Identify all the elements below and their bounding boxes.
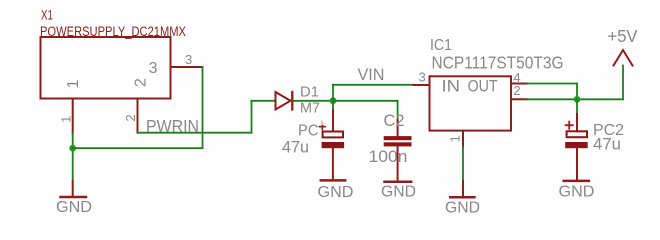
svg-text:X1: X1 (41, 7, 53, 22)
C2 bottom pin to ground (397, 146, 399, 180)
X1 pin 1 (72, 99, 74, 134)
wire VIN riser (332, 85, 334, 101)
svg-text:2: 2 (123, 114, 138, 121)
svg-text:47u: 47u (593, 134, 621, 153)
junction node OUT (574, 96, 581, 103)
svg-text:47u: 47u (282, 137, 309, 156)
X1 pin 2 (137, 99, 139, 133)
diode D1 cathode bar (291, 92, 293, 110)
PC1 name digit 1 (overlapped) (321, 121, 323, 126)
wire junction to pin3 net horizontal (73, 147, 203, 149)
PC1 top pin (332, 110, 334, 132)
wire D1 cathode to VIN junction (294, 100, 334, 102)
ground GND3 bar (PC1) (321, 179, 345, 182)
wire IC1 pin1 to ground (462, 147, 464, 182)
PC2 bottom pin to ground (576, 148, 578, 180)
svg-text:+5V: +5V (608, 26, 638, 46)
wire +5V riser (622, 66, 624, 100)
ground GND5 pin (462, 181, 464, 196)
svg-text:M7: M7 (300, 99, 320, 116)
svg-text:POWERSUPPLY_DC21MMX: POWERSUPPLY_DC21MMX (40, 24, 186, 39)
junction node VIN (330, 97, 337, 104)
wire PWRIN riser (251, 101, 253, 133)
+5V supply arrow (614, 50, 633, 66)
svg-text:3: 3 (419, 69, 426, 84)
IC1 pin 2 stub (511, 98, 527, 100)
wire to D1 anode (252, 100, 276, 102)
svg-text:C2: C2 (384, 111, 405, 130)
svg-text:2: 2 (513, 83, 520, 98)
wire PC2 drop (576, 99, 578, 114)
svg-text:GND: GND (559, 184, 595, 201)
svg-text:GND: GND (318, 184, 354, 201)
svg-text:GND: GND (381, 184, 416, 201)
svg-text:1: 1 (59, 116, 74, 123)
capacitor C2 bottom plate (384, 142, 412, 146)
capacitor PC1 top plate (hollow) (323, 132, 343, 138)
wire pin4 horizontal (527, 83, 577, 85)
svg-text:OUT: OUT (468, 76, 498, 95)
svg-text:PWRIN: PWRIN (146, 116, 199, 136)
wire OUT to +5V (527, 98, 623, 100)
capacitor PC2 bottom plate (565, 142, 588, 148)
connector X1 body (41, 37, 171, 99)
svg-text:VIN: VIN (358, 65, 385, 84)
svg-text:D1: D1 (300, 84, 319, 101)
svg-text:2: 2 (133, 78, 150, 87)
wire X1 pin1 down to ground (72, 133, 74, 181)
svg-text:GND: GND (445, 200, 480, 217)
ground GND2 bar (C2) (385, 180, 412, 183)
capacitor PC2 top plate (hollow) (567, 131, 587, 137)
ground GND1 bar (61, 196, 87, 199)
svg-text:3: 3 (149, 60, 158, 77)
wire PWRIN horizontal (138, 132, 252, 134)
ground GND5 bar (IC1) (450, 196, 474, 199)
wire VIN horizontal (333, 84, 414, 86)
svg-text:3: 3 (185, 52, 192, 67)
diode D1 triangle (276, 92, 291, 110)
IC1 pin 4 stub (511, 83, 527, 85)
C2 top pin (397, 120, 399, 136)
X1 pin 3 (171, 66, 203, 68)
PC1 plus sign (320, 124, 326, 129)
regulator IC1 body (430, 76, 512, 130)
wire PC1 drop (332, 101, 334, 110)
capacitor C2 top plate (384, 136, 412, 140)
svg-text:1: 1 (448, 135, 463, 142)
junction node (GND net) (69, 145, 76, 152)
PC1 bottom pin to ground (332, 148, 334, 179)
svg-text:IN: IN (442, 76, 461, 95)
wire pin4 drop (576, 84, 578, 100)
IC1 pin 1 stub (462, 131, 464, 147)
ground GND4 bar (PC2) (564, 180, 589, 183)
wire C2 drop (397, 101, 399, 120)
PC2 top pin (576, 114, 578, 131)
svg-text:NCP1117ST50T3G: NCP1117ST50T3G (432, 52, 564, 72)
ground GND1 pin (72, 181, 74, 197)
svg-text:1: 1 (65, 79, 82, 88)
svg-text:GND: GND (56, 199, 92, 216)
IC1 pin 3 stub (414, 84, 430, 86)
wire pin3 net vertical (202, 67, 204, 148)
PC2 plus sign (566, 122, 573, 129)
capacitor PC1 bottom plate (322, 142, 345, 148)
wire junction to C2 (333, 100, 398, 102)
svg-text:100n: 100n (369, 147, 408, 166)
